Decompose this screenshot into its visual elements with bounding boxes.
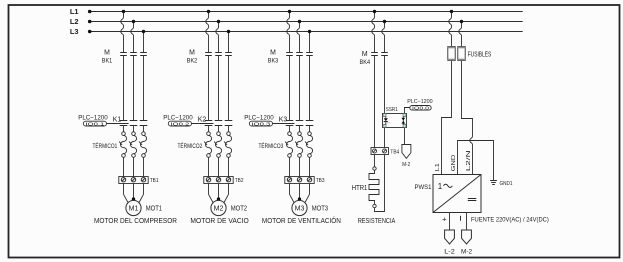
svg-text:GND: GND bbox=[451, 155, 457, 172]
flag M-2 (wire destination) bbox=[461, 230, 472, 256]
svg-text:FUSIBLES: FUSIBLES bbox=[468, 52, 492, 59]
label K3 bbox=[279, 116, 288, 123]
svg-text:TÉRMICO1: TÉRMICO1 bbox=[93, 143, 118, 150]
wire branch 3 poles between K3 and thermal overload bbox=[290, 126, 310, 132]
svg-text:M: M bbox=[104, 49, 110, 56]
label TERMICO1 bbox=[93, 143, 118, 150]
svg-text:M1: M1 bbox=[129, 204, 139, 213]
contactor BK3 main contacts (M BK3) bbox=[286, 53, 313, 56]
wire branch 2 TB2 to motor junction bbox=[209, 184, 229, 203]
wire K2 actuating link from oval to contact bbox=[192, 123, 214, 125]
svg-text:L1: L1 bbox=[70, 7, 79, 16]
svg-text:K2: K2 bbox=[198, 116, 207, 123]
PLC output oval IQ0.1 bbox=[83, 121, 106, 126]
label GND1 bbox=[500, 181, 513, 187]
label PLC-1200 (branch 2) bbox=[163, 115, 193, 122]
label = (DC side) bbox=[468, 199, 477, 201]
svg-text:L2/N: L2/N bbox=[466, 150, 472, 171]
node L3 label and terminal dot bbox=[70, 27, 92, 36]
wire fuse branch right drop from L2 (hop over L3) bbox=[459, 20, 463, 47]
pin label L1 (rotated) bbox=[435, 163, 441, 171]
label TB3 bbox=[316, 178, 325, 184]
label PWS1 bbox=[415, 184, 432, 191]
fuse F1 (left) bbox=[448, 47, 455, 61]
wire fuse F2 to PSU L2/N input (jog right, hop over GND wire) bbox=[462, 61, 473, 175]
contactor BK1 main contacts (M BK1) bbox=[120, 53, 147, 56]
node L1 label and terminal dot bbox=[70, 7, 92, 16]
solid state relay SSR1 bbox=[383, 114, 407, 128]
contactor BK4 main contacts (M BK4) bbox=[371, 53, 388, 56]
wire branch 1 poles between thermal overload and TB1 bbox=[124, 157, 144, 176]
pin label GND (rotated) bbox=[451, 155, 457, 172]
flag L-2 (wire destination) bbox=[444, 230, 455, 256]
fuse F2 (right) bbox=[458, 47, 465, 61]
svg-text:K3: K3 bbox=[279, 116, 288, 123]
power supply PWS1 box bbox=[433, 175, 481, 213]
svg-text:TB1: TB1 bbox=[150, 178, 159, 184]
terminal block TB4 bbox=[371, 148, 389, 155]
contact K3 (PLC driven contact, three poles) bbox=[286, 121, 314, 126]
PLC output oval IQ0.0 bbox=[410, 106, 431, 111]
svg-text:PLC−1200: PLC−1200 bbox=[407, 99, 433, 105]
wire PSU - output down to flag M-2 bbox=[466, 213, 468, 231]
wire L2 bus bbox=[90, 21, 523, 23]
svg-text:IQ0.0: IQ0.0 bbox=[412, 106, 430, 111]
heater element HTR1 (meander) with terminal circles bbox=[369, 167, 379, 208]
svg-text:+: + bbox=[442, 214, 447, 223]
svg-text:MOT1: MOT1 bbox=[146, 204, 162, 213]
contactor BK2 label M / BK2 bbox=[187, 49, 198, 64]
label PLC-1200 (branch 3) bbox=[244, 115, 274, 122]
PLC output oval IQ0.3 bbox=[249, 121, 272, 126]
svg-text:TÉRMICO2: TÉRMICO2 bbox=[178, 143, 203, 150]
label MOT1 bbox=[146, 204, 162, 213]
wire branch 2 poles between K2 and thermal overload bbox=[209, 126, 229, 132]
wire branch 3 pole 2 drop from L2 (hop over L3) bbox=[297, 20, 301, 53]
svg-text:MOT2: MOT2 bbox=[231, 204, 247, 213]
wire branch 2 pole 3 drop from L3 bbox=[227, 30, 230, 53]
label K2 bbox=[198, 116, 207, 123]
wire branch 3 pole 1 drop from L1 (hops over L2 L3) bbox=[287, 10, 291, 53]
label PLC-1200 (branch 1) bbox=[78, 115, 108, 122]
label VENTILACIÓN caption bbox=[262, 216, 341, 225]
label COMPRESOR caption bbox=[94, 216, 177, 225]
label TERMICO3 bbox=[259, 143, 284, 150]
wire branch 2 pole 1 drop from L1 (hops over L2 L3) bbox=[206, 10, 210, 53]
svg-text:TB4: TB4 bbox=[390, 150, 399, 156]
wire branch 3 poles between thermal overload and TB3 bbox=[290, 157, 310, 176]
svg-text:FUENTE 220V(AC) / 24V(DC): FUENTE 220V(AC) / 24V(DC) bbox=[471, 216, 549, 223]
svg-text:PWS1: PWS1 bbox=[415, 184, 432, 191]
wire branch 1 pole 3 drop from L3 bbox=[142, 30, 145, 53]
wire K1 actuating link from oval to contact bbox=[107, 123, 129, 125]
thermal overload relay TERMICO1 (three heater elements) bbox=[119, 132, 146, 158]
wire branch 4 right pole down to SSR1 input bbox=[384, 56, 386, 114]
contactor BK4 label M / BK4 bbox=[360, 51, 371, 66]
node L2 label and terminal dot bbox=[70, 17, 92, 26]
wire branch 1 TB1 to motor junction bbox=[124, 184, 144, 203]
contact K1 (PLC driven contact, three poles) bbox=[120, 121, 148, 126]
contact K2 (PLC driven contact, three poles) bbox=[205, 121, 233, 126]
svg-text:RESISTENCIA: RESISTENCIA bbox=[358, 216, 396, 225]
svg-text:IQ0.2: IQ0.2 bbox=[170, 121, 190, 126]
svg-text:BK4: BK4 bbox=[360, 59, 371, 66]
svg-text:M3: M3 bbox=[295, 204, 305, 213]
svg-text:TB2: TB2 bbox=[235, 178, 244, 184]
ground symbol GND1 bbox=[490, 181, 497, 185]
pin label L2/N (rotated) bbox=[466, 150, 472, 171]
contactor BK2 main contacts (M BK2) bbox=[205, 53, 232, 56]
label MOT2 bbox=[231, 204, 247, 213]
wire branch 4 pole 1 drop from L1 (hops over L2 L3) bbox=[372, 10, 376, 53]
svg-text:M: M bbox=[362, 51, 368, 58]
svg-text:MOT3: MOT3 bbox=[312, 204, 328, 213]
svg-text:BK3: BK3 bbox=[268, 57, 279, 64]
svg-text:HTR1: HTR1 bbox=[352, 185, 368, 192]
wire fuse branch left drop from L1 (hops over L2 L3) bbox=[449, 10, 453, 47]
wire PSU GND terminal to earth GND1 bbox=[458, 141, 494, 181]
wire branch 3 pole 3 drop from L3 bbox=[308, 30, 311, 53]
wire SSR1 output down to flag M-2 bbox=[404, 128, 406, 145]
label VACIO caption bbox=[190, 216, 249, 225]
terminal block TB3 bbox=[285, 177, 314, 184]
label MOT3 bbox=[312, 204, 328, 213]
svg-text:L1: L1 bbox=[435, 163, 441, 171]
thermal overload relay TERMICO3 (three heater elements) bbox=[285, 132, 312, 158]
svg-text:K1: K1 bbox=[113, 116, 122, 123]
wire branch 1 poles between contactor and K1 contact bbox=[124, 56, 144, 121]
svg-text:TB3: TB3 bbox=[316, 178, 325, 184]
motor MOT2 (circle M2) bbox=[211, 200, 226, 215]
label 1~ (AC side) bbox=[438, 182, 453, 191]
wire K3 actuating link from oval to contact bbox=[273, 123, 295, 125]
wire branch 4 left pole down to TB4 bbox=[374, 56, 376, 148]
svg-text:IQ0.3: IQ0.3 bbox=[251, 121, 271, 126]
label + output polarity bbox=[442, 214, 447, 223]
label TB2 bbox=[235, 178, 244, 184]
svg-text:IQ0.1: IQ0.1 bbox=[85, 121, 105, 126]
wire fuse F1 to PSU L input (jog left) bbox=[442, 61, 452, 175]
label TB4 bbox=[390, 150, 399, 156]
flag M-2 (wire destination, SSR output) bbox=[402, 145, 411, 169]
label HTR1 bbox=[352, 185, 368, 192]
wire branch 3 poles between contactor and K3 contact bbox=[290, 56, 310, 121]
label TERMICO2 bbox=[178, 143, 203, 150]
wire branch 3 TB3 to motor junction bbox=[290, 184, 310, 203]
PLC output oval IQ0.2 bbox=[168, 121, 191, 126]
terminal block TB1 bbox=[119, 177, 148, 184]
svg-text:SSR1: SSR1 bbox=[386, 107, 398, 113]
wire branch 2 pole 2 drop from L2 (hop over L3) bbox=[216, 20, 220, 53]
svg-text:M2: M2 bbox=[214, 204, 224, 213]
svg-text:MOTOR DE VENTILACIÓN: MOTOR DE VENTILACIÓN bbox=[262, 216, 341, 225]
contactor BK3 label M / BK3 bbox=[268, 49, 279, 64]
label SSR1 bbox=[386, 107, 398, 113]
svg-text:MOTOR DEL COMPRESOR: MOTOR DEL COMPRESOR bbox=[94, 216, 177, 225]
wire branch 1 pole 2 drop from L2 (hop over L3) bbox=[131, 20, 135, 53]
contactor BK1 label M / BK1 bbox=[102, 49, 113, 64]
svg-text:L2: L2 bbox=[70, 17, 79, 26]
wire branch 4 pole 2 drop from L2 (hop over L3) bbox=[382, 20, 386, 53]
wire branch 2 poles between contactor and K2 contact bbox=[209, 56, 229, 121]
svg-text:L-2: L-2 bbox=[444, 249, 455, 256]
wire L3 bus bbox=[90, 31, 523, 33]
svg-text:BK2: BK2 bbox=[187, 57, 198, 64]
svg-text:1: 1 bbox=[438, 182, 443, 191]
wire branch 2 poles between thermal overload and TB2 bbox=[209, 157, 229, 176]
wire heater bottom return loop to TB4 right terminal bbox=[375, 155, 385, 212]
label TB1 bbox=[150, 178, 159, 184]
wire L1 bus bbox=[90, 11, 523, 13]
svg-text:TÉRMICO3: TÉRMICO3 bbox=[259, 143, 284, 150]
wire branch 1 pole 1 drop from L1 (hops over L2 L3) bbox=[121, 10, 125, 53]
wire TB4 left terminal to heater bbox=[374, 155, 376, 167]
terminal block TB2 bbox=[204, 177, 233, 184]
motor MOT3 (circle M3) bbox=[292, 200, 307, 215]
svg-text:L3: L3 bbox=[70, 27, 79, 36]
label RESISTENCIA caption bbox=[358, 216, 396, 225]
svg-text:M-2: M-2 bbox=[402, 162, 410, 168]
svg-text:M: M bbox=[270, 49, 276, 56]
svg-text:M: M bbox=[189, 49, 195, 56]
label FUSIBLES bbox=[468, 52, 492, 59]
motor MOT1 (circle M1) bbox=[126, 200, 141, 215]
wire PSU + output down to flag L-2 bbox=[449, 213, 451, 231]
svg-text:M-2: M-2 bbox=[461, 249, 472, 256]
label PLC-1200 (SSR branch) bbox=[407, 99, 433, 105]
wire branch 1 poles between K1 and thermal overload bbox=[124, 126, 144, 132]
thermal overload relay TERMICO2 (three heater elements) bbox=[204, 132, 231, 158]
svg-text:BK1: BK1 bbox=[102, 57, 113, 64]
label K1 bbox=[113, 116, 122, 123]
wire SSR1 left output down to TB4 bbox=[384, 128, 386, 148]
label FUENTE 220V(AC) / 24V(DC) bbox=[471, 216, 549, 223]
label - output polarity (vertical tick) bbox=[460, 216, 462, 221]
svg-text:GND1: GND1 bbox=[500, 181, 513, 187]
svg-text:MOTOR DE VACIO: MOTOR DE VACIO bbox=[190, 216, 249, 225]
wire PLC oval to SSR1 control terminal bbox=[405, 108, 410, 114]
